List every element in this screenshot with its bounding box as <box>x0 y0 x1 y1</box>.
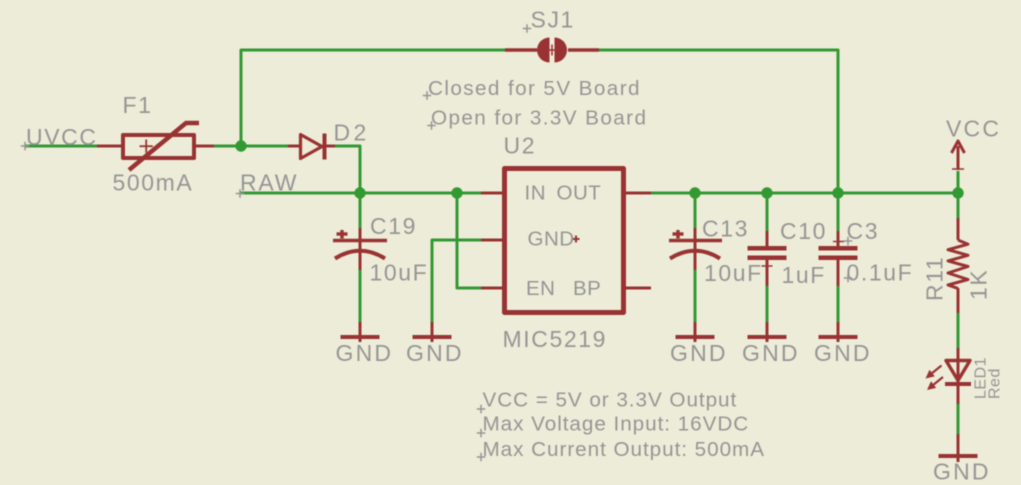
svg-text:VCC: VCC <box>946 116 1001 142</box>
fuse F1 <box>97 123 214 170</box>
wire C13 bottom <box>694 270 697 322</box>
svg-text:0.1uF: 0.1uF <box>847 260 914 286</box>
LED LED1 <box>926 348 972 404</box>
wire to R11 <box>957 193 960 218</box>
wire C3 bottom <box>837 286 840 322</box>
svg-text:Open for 3.3V Board: Open for 3.3V Board <box>431 107 647 130</box>
origin cross note line3 <box>477 453 486 462</box>
wire OUT net <box>651 192 958 195</box>
supply symbol VCC <box>952 141 965 170</box>
wire VCC stub <box>957 171 960 193</box>
junction node OUT-C3 <box>832 187 843 198</box>
ground below C19 <box>341 322 380 342</box>
capacitor C13 <box>669 228 722 270</box>
ground below C10 <box>748 322 787 342</box>
junction node OUT-C13 <box>689 187 700 198</box>
pin IN <box>481 192 502 195</box>
svg-text:GND: GND <box>406 340 464 366</box>
wire U2 GND <box>432 240 481 322</box>
svg-text:1K: 1K <box>966 269 992 300</box>
origin cross Open text <box>427 121 436 130</box>
svg-text:10uF: 10uF <box>704 260 763 286</box>
wire C10 bottom <box>766 286 769 322</box>
wire R11 to LED1 <box>957 313 960 348</box>
pin EN <box>481 287 502 290</box>
origin cross UVCC <box>21 142 30 151</box>
wire SJ1 to right drop <box>599 50 838 193</box>
svg-text:U2: U2 <box>504 133 537 159</box>
wire EN connection <box>457 193 481 288</box>
svg-text:Red: Red <box>987 368 1004 399</box>
svg-text:GND: GND <box>670 340 728 366</box>
svg-text:C13: C13 <box>702 216 749 242</box>
pin GND <box>481 239 502 242</box>
pin OUT <box>626 192 651 195</box>
svg-text:D2: D2 <box>334 120 370 146</box>
origin cross note line2 <box>477 429 486 438</box>
svg-text:OUT: OUT <box>557 182 602 205</box>
ground below U2 <box>413 322 452 342</box>
wire C3 top <box>837 193 840 231</box>
svg-text:Max Voltage Input: 16VDC: Max Voltage Input: 16VDC <box>483 413 750 436</box>
origin cross Closed text <box>423 91 432 100</box>
op-amp U2 regulator box <box>481 169 651 313</box>
svg-text:Closed for 5V Board: Closed for 5V Board <box>428 77 641 100</box>
junction node OUT-VCC <box>952 187 963 198</box>
origin cross C3 name <box>844 237 853 246</box>
svg-text:GND: GND <box>933 459 991 485</box>
origin cross C3 value <box>844 274 853 283</box>
origin cross RAW <box>236 189 245 198</box>
svg-text:GND: GND <box>528 228 575 251</box>
ground below C13 <box>676 322 715 342</box>
junction node RAW-C19 <box>354 187 365 198</box>
wire F1 to D2 <box>214 145 288 148</box>
wire riser to jumper <box>241 50 505 146</box>
svg-text:UVCC: UVCC <box>26 124 98 150</box>
svg-text:500mA: 500mA <box>113 170 194 196</box>
wire C19 bottom <box>359 270 362 322</box>
svg-text:C3: C3 <box>847 218 880 244</box>
wire LED1 to GND <box>957 404 960 434</box>
svg-text:GND: GND <box>814 340 872 366</box>
origin cross note line1 <box>477 405 486 414</box>
diode D2 <box>288 134 335 160</box>
capacitor C3 <box>819 231 858 286</box>
solder jumper SJ1 <box>505 38 599 63</box>
svg-text:SJ1: SJ1 <box>531 7 575 33</box>
junction node OUT-C10 <box>761 187 772 198</box>
capacitor C19 <box>333 228 387 270</box>
svg-text:MIC5219: MIC5219 <box>503 326 608 352</box>
resistor R11 <box>948 218 968 313</box>
origin cross SJ1 <box>523 24 532 33</box>
svg-text:C10: C10 <box>780 218 827 244</box>
wire C13 top <box>694 193 697 228</box>
svg-text:F1: F1 <box>123 92 153 118</box>
capacitor C10 <box>748 231 787 286</box>
junction node RAW-EN <box>451 187 462 198</box>
svg-text:GND: GND <box>742 340 800 366</box>
svg-text:C19: C19 <box>370 213 417 239</box>
wire RAW net <box>240 192 481 195</box>
svg-text:IN: IN <box>525 182 547 205</box>
svg-text:RAW: RAW <box>240 170 298 196</box>
svg-text:EN: EN <box>526 277 555 300</box>
U2 origin cross <box>573 238 580 240</box>
wire C19 top <box>359 193 362 228</box>
wire C10 top <box>766 193 769 231</box>
svg-text:Max Current Output: 500mA: Max Current Output: 500mA <box>483 438 765 461</box>
ground below LED1 <box>939 434 978 462</box>
svg-text:VCC = 5V or 3.3V Output: VCC = 5V or 3.3V Output <box>483 389 738 412</box>
svg-text:BP: BP <box>573 277 601 300</box>
svg-text:10uF: 10uF <box>370 260 429 286</box>
pin BP <box>626 287 651 290</box>
svg-text:GND: GND <box>336 340 394 366</box>
junction node F1-SJ1 <box>235 140 246 151</box>
wire UVCC to F1 <box>25 145 97 148</box>
svg-text:1uF: 1uF <box>782 262 826 288</box>
svg-text:R11: R11 <box>922 256 948 301</box>
ground below C3 <box>819 322 858 342</box>
wire D2 cathode <box>335 146 360 193</box>
